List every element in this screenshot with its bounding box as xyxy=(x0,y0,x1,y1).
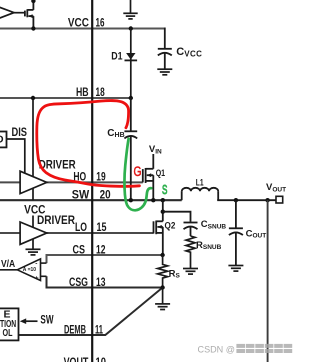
node HB junction with D1/CHB xyxy=(129,96,133,100)
IC boundary xyxy=(91,0,93,362)
wire CS pin 12 net xyxy=(47,255,163,263)
diode D1 xyxy=(125,29,138,99)
node COUT tap xyxy=(234,198,238,202)
wire gate of Q3 xyxy=(14,12,24,14)
node CSG / RS / DEMB junction xyxy=(160,285,164,289)
capacitor CVCC xyxy=(158,28,172,70)
node Q1 source on SW xyxy=(151,198,155,202)
capacitor CSNUB xyxy=(184,223,198,237)
wire output net xyxy=(217,199,276,201)
svg-text:15: 15 xyxy=(97,220,107,234)
svg-text:-: - xyxy=(35,261,37,268)
op-amp U1 high-side driver triangle xyxy=(20,171,47,193)
inductor L1 xyxy=(182,188,219,200)
wire LO pin 15 net xyxy=(0,232,154,234)
svg-text:DRIVER: DRIVER xyxy=(37,213,75,227)
svg-text:16: 16 xyxy=(96,16,105,30)
svg-text:DIS: DIS xyxy=(12,125,28,139)
svg-text:Q2: Q2 xyxy=(165,221,176,231)
svg-text:HB: HB xyxy=(76,85,89,99)
box DIS input (cut at left edge) xyxy=(0,132,7,148)
box diode emulation control (cut at left edge) xyxy=(0,308,19,340)
svg-text:OL: OL xyxy=(3,327,13,339)
svg-text:LO: LO xyxy=(75,220,87,234)
ground snubber xyxy=(183,269,198,275)
watermark CSDN xyxy=(198,344,293,355)
wire VCC rail of low-side driver to ground xyxy=(32,216,34,250)
svg-text:13: 13 xyxy=(96,275,106,289)
transistor Q3 (VCC switch) xyxy=(25,0,34,29)
ground low-side driver xyxy=(26,249,41,255)
svg-text:D: D xyxy=(0,134,4,146)
node snubber tap on Q2 drain xyxy=(161,210,165,214)
ground COUT xyxy=(228,266,243,272)
svg-text:DEMB: DEMB xyxy=(64,323,86,337)
wire VIN stub xyxy=(152,154,154,169)
ground top xyxy=(123,0,137,19)
wire feedback VOUT sense xyxy=(267,200,269,362)
node CS tap on Q2 source xyxy=(160,253,164,257)
svg-text:S: S xyxy=(162,182,168,197)
op-amp U2 low-side driver triangle xyxy=(20,222,47,244)
svg-text:11: 11 xyxy=(95,323,103,337)
wire VCC pin 16 net xyxy=(0,28,165,30)
buffer U3 xyxy=(0,5,14,20)
node Q3 source on VCC xyxy=(31,26,35,30)
node drain of Q3 at top edge xyxy=(31,0,35,3)
resistor RSNUB xyxy=(186,236,195,269)
svg-text:A =10: A =10 xyxy=(23,267,37,273)
svg-text:SW: SW xyxy=(40,312,53,326)
resistor RS xyxy=(158,255,168,288)
wire HO pin 19 net xyxy=(0,181,143,183)
capacitor CHB xyxy=(124,98,137,200)
ground RS xyxy=(155,288,170,310)
svg-text:10: 10 xyxy=(96,355,107,362)
svg-text:+: + xyxy=(35,275,39,282)
svg-text:SW: SW xyxy=(72,187,90,201)
capacitor COUT xyxy=(229,200,243,265)
svg-text:19: 19 xyxy=(96,170,106,184)
ground CVCC xyxy=(157,69,172,75)
wire CSG pin 13 net xyxy=(47,276,163,287)
amplifier V/A current sense xyxy=(0,263,47,276)
svg-text:12: 12 xyxy=(96,243,106,257)
annotation green path xyxy=(124,139,151,210)
wire DIS signal to driver xyxy=(7,139,25,176)
wire SW pin 20 net xyxy=(0,199,182,201)
annotation red loop xyxy=(37,100,140,186)
svg-text:VOUT: VOUT xyxy=(64,355,89,362)
svg-text:CS: CS xyxy=(73,243,86,257)
transistor Q2 xyxy=(154,200,163,255)
svg-text:18: 18 xyxy=(96,85,105,99)
wire HB pin 18 net xyxy=(0,97,131,99)
wire snubber branch xyxy=(163,212,191,222)
svg-text:G: G xyxy=(134,164,142,179)
node CHB on SW xyxy=(129,198,133,202)
svg-text:VCC: VCC xyxy=(68,16,89,30)
wire DEMB pin 11 net with diagonal to RS ground node xyxy=(19,288,163,336)
svg-text:CSG: CSG xyxy=(69,275,88,289)
wire HB rail down to high-side driver and SW xyxy=(32,98,34,200)
node Q2 drain on SW xyxy=(161,198,165,202)
svg-text:CSDN @: CSDN @ xyxy=(198,344,236,355)
node feedback tap xyxy=(265,198,269,202)
svg-text:Q1: Q1 xyxy=(156,168,165,178)
node HB rail branch xyxy=(31,96,35,100)
svg-text:V/A: V/A xyxy=(1,258,16,270)
svg-text:D1: D1 xyxy=(111,51,122,63)
node D1 anode on VCC xyxy=(129,26,133,30)
svg-text:L1: L1 xyxy=(196,177,204,187)
svg-text:20: 20 xyxy=(100,187,111,201)
terminal VOUT xyxy=(276,196,283,203)
transistor Q1 xyxy=(143,168,154,200)
